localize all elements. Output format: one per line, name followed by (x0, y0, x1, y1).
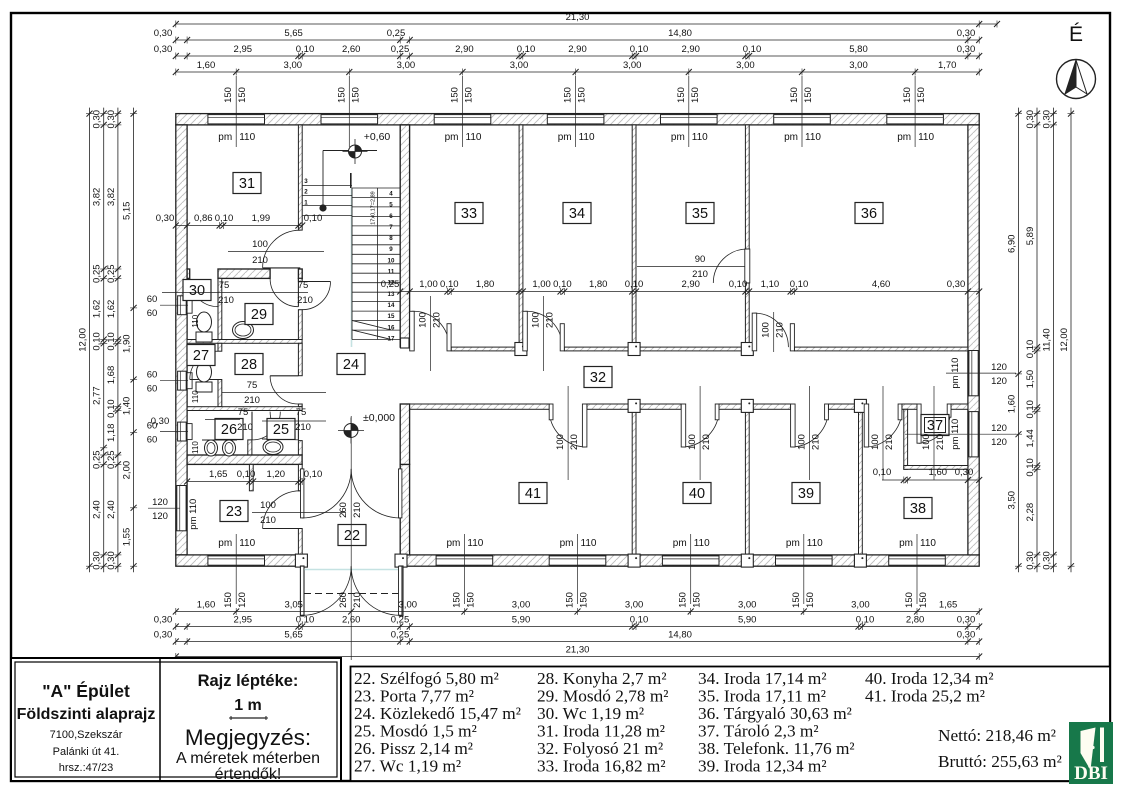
svg-text:0,10: 0,10 (215, 213, 234, 224)
svg-text:35: 35 (692, 206, 708, 222)
svg-text:100: 100 (417, 312, 428, 328)
svg-text:pm 110: pm 110 (950, 419, 961, 450)
svg-text:Megjegyzés:: Megjegyzés: (185, 725, 311, 750)
svg-text:2,60: 2,60 (342, 44, 361, 55)
svg-text:0,25: 0,25 (106, 264, 117, 283)
svg-text:2,95: 2,95 (234, 615, 253, 626)
svg-text:0,10: 0,10 (1025, 400, 1036, 419)
svg-text:150: 150 (336, 87, 347, 103)
svg-text:1,62: 1,62 (106, 300, 117, 319)
svg-text:2,90: 2,90 (681, 279, 700, 290)
svg-text:210: 210 (244, 395, 260, 406)
svg-text:2: 2 (304, 189, 308, 196)
svg-text:6: 6 (389, 213, 393, 220)
svg-text:150: 150 (464, 87, 475, 103)
svg-text:0,10: 0,10 (1025, 458, 1036, 477)
svg-text:110: 110 (191, 441, 200, 454)
svg-text:26: 26 (221, 422, 237, 438)
svg-text:110: 110 (191, 314, 200, 327)
svg-text:3,00: 3,00 (851, 600, 870, 611)
svg-text:210: 210 (260, 515, 276, 526)
svg-text:pm 110: pm 110 (188, 499, 199, 530)
svg-text:110: 110 (239, 538, 255, 549)
svg-text:pm: pm (671, 132, 685, 143)
svg-text:0,30: 0,30 (92, 110, 103, 129)
svg-text:120: 120 (991, 423, 1007, 434)
svg-text:17x0,17=2,89: 17x0,17=2,89 (371, 191, 377, 225)
svg-text:13: 13 (388, 291, 395, 298)
svg-text:110: 110 (805, 132, 821, 143)
svg-text:pm: pm (899, 538, 913, 549)
svg-text:22: 22 (344, 528, 360, 544)
svg-text:pm: pm (786, 538, 800, 549)
svg-text:0,30: 0,30 (1025, 551, 1036, 570)
svg-text:150: 150 (791, 592, 802, 608)
svg-text:5,90: 5,90 (738, 615, 757, 626)
svg-text:2,40: 2,40 (92, 500, 103, 518)
svg-text:1,90: 1,90 (122, 334, 133, 353)
svg-text:75: 75 (247, 380, 258, 391)
svg-text:3,00: 3,00 (512, 600, 531, 611)
svg-text:75: 75 (219, 280, 230, 291)
svg-text:110: 110 (467, 538, 483, 549)
svg-text:60: 60 (147, 435, 158, 446)
svg-text:16: 16 (388, 324, 395, 331)
svg-text:1,55: 1,55 (122, 528, 133, 547)
svg-text:31: 31 (239, 176, 255, 192)
svg-text:21,30: 21,30 (566, 12, 590, 23)
svg-text:0,25: 0,25 (381, 279, 400, 290)
svg-text:120: 120 (152, 511, 168, 522)
svg-text:+0,60: +0,60 (364, 131, 391, 143)
svg-text:0,10: 0,10 (630, 44, 649, 55)
svg-text:Palánki út 41.: Palánki út 41. (53, 746, 120, 758)
svg-text:0,30: 0,30 (154, 630, 173, 641)
svg-text:0,10: 0,10 (630, 615, 649, 626)
svg-text:±0,000: ±0,000 (363, 412, 395, 424)
svg-text:1,80: 1,80 (476, 279, 495, 290)
svg-text:0,30: 0,30 (957, 615, 976, 626)
svg-text:5,90: 5,90 (512, 615, 531, 626)
svg-text:pm: pm (218, 132, 232, 143)
svg-text:60: 60 (147, 308, 158, 319)
svg-text:0,30: 0,30 (947, 279, 966, 290)
svg-text:150: 150 (692, 592, 703, 608)
svg-text:24: 24 (343, 357, 359, 373)
svg-text:100: 100 (687, 434, 698, 450)
svg-text:5,65: 5,65 (284, 630, 303, 641)
svg-text:11,40: 11,40 (1042, 328, 1053, 351)
svg-text:100: 100 (761, 322, 772, 338)
svg-text:0,25: 0,25 (387, 28, 406, 39)
svg-text:30: 30 (189, 283, 205, 299)
svg-text:32. Folyosó 21 m²: 32. Folyosó 21 m² (537, 739, 663, 758)
svg-text:150: 150 (577, 87, 588, 103)
svg-text:1,62: 1,62 (92, 300, 103, 319)
svg-text:1,99: 1,99 (252, 213, 271, 224)
svg-text:3,82: 3,82 (92, 188, 103, 207)
svg-text:33: 33 (461, 206, 477, 222)
svg-text:23: 23 (226, 504, 242, 520)
svg-text:150: 150 (789, 87, 800, 103)
svg-text:0,30: 0,30 (957, 28, 976, 39)
svg-text:8: 8 (389, 235, 393, 242)
svg-text:60: 60 (147, 294, 158, 305)
svg-text:120: 120 (991, 437, 1007, 448)
svg-text:0,25: 0,25 (92, 450, 103, 469)
svg-text:1,70: 1,70 (938, 60, 957, 71)
svg-text:32: 32 (590, 370, 606, 386)
svg-text:29: 29 (251, 307, 267, 323)
svg-text:150: 150 (565, 592, 576, 608)
svg-text:110: 110 (807, 538, 823, 549)
svg-text:0,30: 0,30 (1042, 110, 1053, 129)
svg-text:3,00: 3,00 (849, 60, 868, 71)
svg-text:28: 28 (241, 357, 257, 373)
svg-text:210: 210 (775, 322, 786, 338)
svg-text:Földszinti alaprajz: Földszinti alaprajz (17, 706, 156, 723)
svg-text:110: 110 (579, 132, 595, 143)
svg-text:0,30: 0,30 (106, 551, 117, 570)
svg-text:100: 100 (921, 434, 932, 450)
svg-text:0,30: 0,30 (955, 467, 974, 478)
svg-text:75: 75 (238, 407, 249, 418)
svg-text:2,40: 2,40 (106, 500, 117, 518)
svg-text:260: 260 (338, 502, 349, 518)
svg-text:0,30: 0,30 (154, 44, 173, 55)
svg-text:0,25: 0,25 (391, 615, 410, 626)
svg-text:0,30: 0,30 (957, 44, 976, 55)
svg-text:110: 110 (581, 538, 597, 549)
svg-text:150: 150 (465, 592, 476, 608)
svg-text:150: 150 (350, 87, 361, 103)
svg-text:pm: pm (445, 132, 459, 143)
svg-text:1 m: 1 m (234, 697, 262, 714)
svg-text:0,25: 0,25 (106, 450, 117, 469)
svg-text:14: 14 (388, 302, 395, 309)
svg-text:1,00: 1,00 (532, 279, 551, 290)
svg-text:150: 150 (676, 87, 687, 103)
svg-text:210: 210 (545, 312, 556, 328)
svg-text:pm: pm (446, 538, 460, 549)
svg-text:2,80: 2,80 (906, 615, 925, 626)
svg-text:2,28: 2,28 (1025, 503, 1036, 522)
svg-text:1,60: 1,60 (929, 467, 948, 478)
svg-text:Bruttó: 255,63 m²: Bruttó: 255,63 m² (938, 752, 1062, 771)
svg-text:2,90: 2,90 (455, 44, 474, 55)
svg-text:2,90: 2,90 (681, 44, 700, 55)
svg-text:27: 27 (193, 348, 209, 364)
svg-text:É: É (1069, 23, 1083, 46)
svg-text:150: 150 (918, 592, 929, 608)
svg-text:210: 210 (352, 502, 363, 518)
svg-text:0,30: 0,30 (1042, 551, 1053, 570)
svg-text:26. Pissz 2,14 m²: 26. Pissz 2,14 m² (354, 739, 473, 758)
svg-text:60: 60 (147, 384, 158, 395)
svg-text:5: 5 (389, 202, 393, 209)
svg-text:pm: pm (673, 538, 687, 549)
svg-text:3,00: 3,00 (736, 60, 755, 71)
svg-text:0,10: 0,10 (440, 279, 459, 290)
svg-text:100: 100 (555, 434, 566, 450)
svg-text:210: 210 (701, 434, 712, 450)
svg-text:pm: pm (558, 132, 572, 143)
svg-text:150: 150 (916, 87, 927, 103)
svg-text:0,10: 0,10 (296, 44, 315, 55)
svg-text:110: 110 (239, 132, 255, 143)
svg-text:150: 150 (579, 592, 590, 608)
svg-text:210: 210 (811, 434, 822, 450)
svg-text:1,60: 1,60 (1007, 395, 1018, 414)
svg-text:0,10: 0,10 (856, 615, 875, 626)
svg-text:110: 110 (918, 132, 934, 143)
svg-text:2,90: 2,90 (568, 44, 587, 55)
svg-text:0,30: 0,30 (1025, 110, 1036, 129)
svg-text:36: 36 (861, 206, 877, 222)
svg-text:1,60: 1,60 (197, 600, 216, 611)
svg-text:75: 75 (298, 280, 309, 291)
svg-text:150: 150 (803, 87, 814, 103)
svg-text:1,50: 1,50 (1025, 370, 1036, 389)
svg-text:0,10: 0,10 (106, 399, 117, 418)
svg-text:1,65: 1,65 (209, 469, 228, 480)
svg-text:pm: pm (784, 132, 798, 143)
svg-text:100: 100 (260, 500, 276, 511)
svg-text:31. Iroda 11,28 m²: 31. Iroda 11,28 m² (537, 722, 665, 741)
svg-text:"A" Épület: "A" Épület (42, 680, 130, 701)
svg-text:100: 100 (797, 434, 808, 450)
svg-text:3,05: 3,05 (284, 600, 303, 611)
svg-text:0,10: 0,10 (729, 279, 748, 290)
svg-text:40. Iroda 12,34 m²: 40. Iroda 12,34 m² (865, 669, 994, 688)
svg-text:0,10: 0,10 (873, 467, 892, 478)
svg-text:210: 210 (431, 312, 442, 328)
svg-text:37: 37 (927, 418, 943, 434)
svg-text:28. Konyha 2,7 m²: 28. Konyha 2,7 m² (537, 669, 667, 688)
svg-text:2,00: 2,00 (122, 461, 133, 480)
svg-text:41. Iroda 25,2 m²: 41. Iroda 25,2 m² (865, 687, 985, 706)
svg-text:10: 10 (388, 257, 395, 264)
svg-text:150: 150 (678, 592, 689, 608)
svg-text:0,30: 0,30 (957, 630, 976, 641)
svg-text:0,10: 0,10 (106, 332, 117, 351)
svg-text:1,00: 1,00 (419, 279, 438, 290)
svg-text:3,00: 3,00 (623, 60, 642, 71)
svg-text:3,00: 3,00 (738, 600, 757, 611)
svg-text:0,30: 0,30 (154, 28, 173, 39)
svg-text:DBI: DBI (1074, 763, 1108, 784)
svg-text:40: 40 (689, 486, 705, 502)
svg-text:1,18: 1,18 (106, 424, 117, 443)
svg-text:5,65: 5,65 (284, 28, 303, 39)
svg-text:pm: pm (218, 538, 232, 549)
svg-text:210: 210 (569, 434, 580, 450)
svg-text:33. Iroda 16,82 m²: 33. Iroda 16,82 m² (537, 757, 666, 776)
svg-text:0,10: 0,10 (237, 469, 256, 480)
svg-text:0,30: 0,30 (154, 615, 173, 626)
svg-text:1,40: 1,40 (122, 397, 133, 416)
svg-text:9: 9 (389, 246, 393, 253)
svg-text:pm: pm (897, 132, 911, 143)
svg-text:5,80: 5,80 (849, 44, 868, 55)
svg-text:3,00: 3,00 (625, 600, 644, 611)
svg-text:7: 7 (389, 224, 393, 231)
svg-text:210: 210 (252, 255, 268, 266)
svg-text:0,25: 0,25 (92, 264, 103, 283)
svg-text:12,00: 12,00 (1059, 328, 1070, 352)
svg-text:3,82: 3,82 (106, 188, 117, 207)
svg-text:260: 260 (338, 592, 349, 608)
svg-text:120: 120 (152, 497, 168, 508)
svg-text:150: 150 (450, 87, 461, 103)
svg-text:3,00: 3,00 (397, 60, 416, 71)
svg-text:0,10: 0,10 (625, 279, 644, 290)
svg-text:értendők!: értendők! (215, 766, 282, 783)
svg-text:110: 110 (692, 132, 708, 143)
svg-text:6,90: 6,90 (1007, 235, 1018, 254)
svg-text:Rajz léptéke:: Rajz léptéke: (198, 672, 299, 690)
svg-text:1,60: 1,60 (197, 60, 216, 71)
svg-text:150: 150 (902, 87, 913, 103)
svg-text:25. Mosdó 1,5 m²: 25. Mosdó 1,5 m² (354, 722, 477, 741)
svg-text:60: 60 (147, 370, 158, 381)
svg-text:110: 110 (191, 390, 200, 403)
svg-text:41: 41 (525, 486, 541, 502)
svg-text:210: 210 (218, 295, 234, 306)
svg-text:0,25: 0,25 (391, 44, 410, 55)
svg-text:0,10: 0,10 (92, 332, 103, 351)
svg-text:1,10: 1,10 (761, 279, 780, 290)
svg-text:210: 210 (295, 422, 311, 433)
svg-text:150: 150 (451, 592, 462, 608)
svg-text:14,80: 14,80 (668, 28, 692, 39)
svg-text:150: 150 (223, 592, 234, 608)
svg-text:34. Iroda 17,14 m²: 34. Iroda 17,14 m² (698, 669, 827, 688)
svg-text:pm 110: pm 110 (950, 358, 961, 389)
svg-text:75: 75 (296, 407, 307, 418)
svg-text:100: 100 (252, 239, 268, 250)
svg-text:7100,Szekszár: 7100,Szekszár (50, 729, 123, 741)
svg-text:27. Wc 1,19 m²: 27. Wc 1,19 m² (354, 757, 461, 776)
svg-text:90: 90 (695, 254, 706, 265)
svg-text:25: 25 (273, 422, 289, 438)
svg-text:210: 210 (352, 592, 363, 608)
svg-text:Nettó: 218,46 m²: Nettó: 218,46 m² (938, 726, 1056, 745)
svg-text:2,77: 2,77 (92, 386, 103, 405)
svg-text:39: 39 (798, 486, 814, 502)
svg-text:36. Tárgyaló 30,63 m²: 36. Tárgyaló 30,63 m² (698, 704, 852, 723)
svg-text:150: 150 (805, 592, 816, 608)
svg-text:150: 150 (904, 592, 915, 608)
svg-text:0,10: 0,10 (304, 213, 323, 224)
svg-text:150: 150 (690, 87, 701, 103)
svg-text:0,10: 0,10 (1025, 340, 1036, 359)
svg-text:12,00: 12,00 (78, 328, 89, 352)
svg-text:100: 100 (870, 434, 881, 450)
svg-text:21,30: 21,30 (566, 645, 590, 656)
svg-text:4: 4 (389, 191, 393, 198)
svg-text:3,00: 3,00 (284, 60, 303, 71)
svg-text:0,10: 0,10 (790, 279, 809, 290)
svg-text:120: 120 (237, 592, 248, 608)
svg-text:2,60: 2,60 (342, 615, 361, 626)
svg-text:4,60: 4,60 (872, 279, 891, 290)
svg-text:110: 110 (466, 132, 482, 143)
svg-text:37. Tároló 2,3 m²: 37. Tároló 2,3 m² (698, 722, 819, 741)
svg-text:0,30: 0,30 (92, 551, 103, 570)
svg-text:39. Iroda 12,34 m²: 39. Iroda 12,34 m² (698, 757, 827, 776)
svg-text:14,80: 14,80 (668, 630, 692, 641)
svg-text:210: 210 (884, 434, 895, 450)
svg-text:15: 15 (388, 313, 395, 320)
svg-text:110: 110 (694, 538, 710, 549)
svg-text:5,89: 5,89 (1025, 227, 1036, 246)
svg-text:0,10: 0,10 (304, 469, 323, 480)
svg-text:210: 210 (935, 434, 946, 450)
svg-text:0,30: 0,30 (151, 416, 170, 427)
svg-text:23. Porta 7,77 m²: 23. Porta 7,77 m² (354, 687, 474, 706)
svg-text:1,80: 1,80 (589, 279, 608, 290)
svg-text:210: 210 (297, 295, 313, 306)
svg-text:A méretek méterben: A méretek méterben (176, 750, 320, 767)
svg-text:0,10: 0,10 (743, 44, 762, 55)
svg-text:110: 110 (920, 538, 936, 549)
svg-text:3,00: 3,00 (399, 600, 418, 611)
svg-text:1,68: 1,68 (106, 366, 117, 385)
svg-text:38. Telefonk. 11,76 m²: 38. Telefonk. 11,76 m² (698, 739, 855, 758)
svg-text:3,00: 3,00 (510, 60, 529, 71)
svg-text:0,86: 0,86 (194, 213, 213, 224)
svg-text:1: 1 (304, 200, 308, 207)
svg-text:2,95: 2,95 (234, 44, 253, 55)
svg-text:34: 34 (569, 206, 585, 222)
svg-text:1,65: 1,65 (939, 600, 958, 611)
svg-text:3,50: 3,50 (1007, 491, 1018, 510)
svg-text:11: 11 (388, 269, 395, 276)
svg-text:1,44: 1,44 (1025, 429, 1036, 448)
svg-text:150: 150 (563, 87, 574, 103)
svg-text:5,15: 5,15 (122, 202, 133, 221)
svg-text:22. Szélfogó 5,80 m²: 22. Szélfogó 5,80 m² (354, 669, 499, 688)
svg-text:0,25: 0,25 (391, 630, 410, 641)
svg-text:120: 120 (991, 362, 1007, 373)
svg-text:3: 3 (304, 178, 308, 185)
svg-text:38: 38 (910, 501, 926, 517)
svg-text:100: 100 (531, 312, 542, 328)
svg-text:hrsz.:47/23: hrsz.:47/23 (59, 762, 113, 774)
svg-text:24. Közlekedő 15,47 m²: 24. Közlekedő 15,47 m² (354, 704, 521, 723)
svg-text:0,30: 0,30 (156, 213, 175, 224)
svg-text:0,10: 0,10 (517, 44, 536, 55)
svg-text:150: 150 (223, 87, 234, 103)
svg-text:29. Mosdó 2,78 m²: 29. Mosdó 2,78 m² (537, 687, 668, 706)
svg-text:150: 150 (237, 87, 248, 103)
svg-text:pm: pm (560, 538, 574, 549)
svg-text:210: 210 (237, 422, 253, 433)
svg-text:0,10: 0,10 (553, 279, 572, 290)
svg-text:1,20: 1,20 (267, 469, 286, 480)
svg-text:35. Iroda 17,11 m²: 35. Iroda 17,11 m² (698, 687, 826, 706)
svg-text:0,30: 0,30 (106, 110, 117, 128)
svg-text:0,10: 0,10 (296, 615, 315, 626)
svg-text:120: 120 (991, 376, 1007, 387)
svg-text:30. Wc 1,19 m²: 30. Wc 1,19 m² (537, 704, 644, 723)
